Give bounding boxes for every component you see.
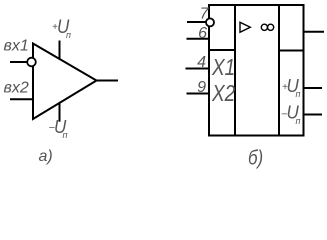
divider left field <box>234 5 236 136</box>
wire output <box>97 80 119 82</box>
wire pin 6 <box>187 38 210 40</box>
inversion bubble on vx1 <box>27 58 36 67</box>
wire pin 4 <box>186 68 210 70</box>
IC body rectangle U1 <box>209 5 304 136</box>
svg-text:а): а) <box>39 148 53 165</box>
op-amp triangle A1 <box>33 44 97 120</box>
divider right field <box>278 5 280 136</box>
wire input vx2 <box>10 98 33 100</box>
svg-text:6: 6 <box>198 25 207 42</box>
inversion bubble on pin 7 <box>206 18 214 26</box>
infinity symbol <box>261 24 267 30</box>
svg-text:4: 4 <box>197 54 206 71</box>
wire output pin <box>304 31 325 33</box>
label +Un right field <box>282 75 301 99</box>
svg-text:вх2: вх2 <box>4 79 29 96</box>
svg-text:7: 7 <box>200 6 210 23</box>
zone line right field <box>279 50 304 52</box>
wire +U pin <box>304 87 323 89</box>
svg-text:п: п <box>296 89 301 99</box>
label -Un right field <box>281 102 301 126</box>
svg-text:X1: X1 <box>211 56 235 81</box>
label -Un bottom <box>49 116 68 140</box>
zone line left field <box>209 49 235 51</box>
svg-text:п: п <box>63 130 68 140</box>
label +Un top <box>52 16 71 40</box>
wire -U pin <box>304 114 323 116</box>
svg-text:п: п <box>296 116 301 126</box>
wire input vx1 <box>10 61 27 63</box>
svg-text:X2: X2 <box>211 81 235 106</box>
wire +U power <box>59 41 61 59</box>
amplifier triangle symbol <box>240 22 250 32</box>
wire pin 7 <box>187 21 206 23</box>
svg-text:вх1: вх1 <box>4 38 29 55</box>
svg-text:9: 9 <box>197 79 206 96</box>
svg-text:б): б) <box>248 146 263 169</box>
svg-text:п: п <box>66 30 71 40</box>
wire -U power <box>59 103 61 122</box>
wire pin 9 <box>187 93 210 95</box>
